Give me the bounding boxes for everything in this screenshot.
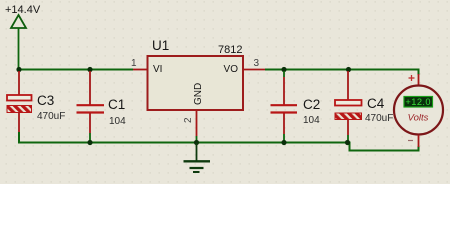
wire top rail left — [18, 69, 133, 71]
voltmeter U2 — [394, 86, 443, 135]
svg-text:Volts: Volts — [408, 113, 429, 124]
label C4 — [367, 96, 385, 111]
voltmeter minus mark — [408, 140, 413, 142]
capacitor C4 — [335, 71, 362, 142]
svg-text:U1: U1 — [152, 38, 169, 53]
pin number 2 — [183, 117, 194, 123]
junction node C4 bottom — [345, 140, 350, 145]
wire U1 pin2 stub — [196, 110, 198, 142]
svg-text:C4: C4 — [367, 96, 385, 111]
svg-text:104: 104 — [109, 116, 126, 127]
capacitor C3 — [7, 71, 32, 142]
junction node C4 top — [346, 67, 351, 72]
label +14.4V — [5, 4, 41, 16]
label C2 — [303, 97, 320, 112]
value 7812 — [218, 44, 242, 56]
svg-text:+14.4V: +14.4V — [5, 4, 41, 16]
svg-text:1: 1 — [131, 58, 137, 69]
voltmeter plus mark — [409, 75, 415, 81]
label U1 — [152, 38, 169, 53]
wire U1 pin3 stub — [243, 69, 265, 71]
power terminal arrow — [11, 15, 26, 70]
value 104 (C2) — [303, 115, 320, 126]
svg-text:470uF: 470uF — [365, 113, 393, 124]
junction node C1 bottom — [87, 140, 92, 145]
op-amp U1 regulator box — [148, 56, 244, 110]
junction node ground — [194, 140, 199, 145]
junction node C1 top — [87, 67, 92, 72]
svg-text:7812: 7812 — [218, 44, 242, 56]
junction node top-left — [16, 67, 21, 72]
wire top rail right — [265, 70, 419, 76]
label C3 — [37, 93, 54, 108]
svg-text:C1: C1 — [108, 97, 125, 112]
junction node C2 bottom — [281, 140, 286, 145]
svg-text:VO: VO — [224, 64, 239, 75]
wire voltmeter bottom stub — [418, 135, 420, 147]
svg-text:+12.0: +12.0 — [405, 97, 431, 107]
svg-text:2: 2 — [183, 117, 194, 123]
svg-text:GND: GND — [193, 83, 204, 105]
svg-text:C3: C3 — [37, 93, 54, 108]
wire voltmeter top stub — [418, 74, 420, 86]
value 470uF — [37, 111, 65, 122]
svg-text:C2: C2 — [303, 97, 320, 112]
svg-text:VI: VI — [153, 64, 162, 75]
junction node C2 top — [281, 67, 286, 72]
wire U1 pin1 stub — [133, 69, 147, 71]
label C1 — [108, 97, 125, 112]
pin number 1 — [131, 58, 137, 69]
value 470uF (C4) — [365, 113, 393, 124]
svg-text:470uF: 470uF — [37, 111, 65, 122]
capacitor C1 — [77, 71, 105, 142]
pin number 3 — [254, 58, 260, 69]
ground — [184, 143, 211, 173]
wire bottom rail — [19, 132, 419, 151]
capacitor C2 — [271, 71, 298, 142]
svg-text:104: 104 — [303, 115, 320, 126]
value 104 (C1) — [109, 116, 126, 127]
svg-text:3: 3 — [254, 58, 260, 69]
